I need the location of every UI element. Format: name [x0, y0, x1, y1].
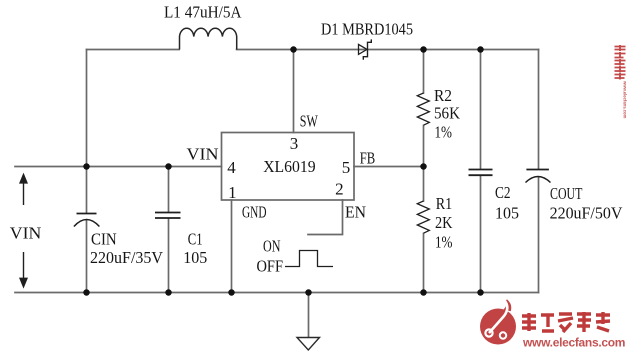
svg-text:COUT: COUT [550, 184, 583, 203]
inductor L1 coil [180, 28, 237, 49]
svg-text:VIN: VIN [187, 145, 219, 164]
svg-text:R2: R2 [434, 86, 452, 105]
wire GND pin 1 [231, 200, 233, 293]
svg-text:2: 2 [335, 180, 344, 199]
wire C1 lower [168, 219, 170, 293]
node bottom C1 [165, 289, 172, 296]
node bottom ground stem [305, 289, 312, 296]
wire top rail left segment [87, 49, 180, 51]
capacitor C1 plates [155, 213, 181, 219]
svg-text:105: 105 [183, 248, 207, 267]
svg-text:1: 1 [228, 183, 237, 202]
node bottom C2 [477, 289, 484, 296]
node input rail / riser [83, 163, 90, 170]
VIN arrow lower [19, 252, 28, 289]
watermark logo disc [480, 300, 516, 345]
node SW top [290, 46, 297, 53]
svg-text:56K: 56K [434, 104, 461, 123]
op IC U1 XL6019 box [222, 133, 355, 201]
svg-text:105: 105 [495, 203, 519, 222]
watermark brand characters [522, 312, 610, 332]
node bottom CIN [83, 289, 90, 296]
wire R2 bottom lead to FB node [423, 126, 425, 167]
node D1 cathode / R2 top [420, 46, 427, 53]
svg-text:VIN: VIN [10, 224, 42, 243]
wire ground stem [308, 293, 310, 338]
wire top rail right of inductor [237, 49, 539, 51]
svg-text:www.elecfans.com: www.elecfans.com [522, 336, 625, 350]
svg-text:FB: FB [360, 149, 376, 168]
svg-text:SW: SW [300, 111, 319, 130]
svg-text:EN: EN [345, 203, 366, 222]
svg-text:L1 47uH/5A: L1 47uH/5A [164, 3, 242, 22]
svg-text:220uF/35V: 220uF/35V [90, 248, 164, 267]
resistor R1 zigzag [417, 201, 429, 233]
svg-text:5: 5 [342, 158, 351, 177]
svg-text:C1: C1 [188, 230, 203, 249]
ground symbol [297, 338, 320, 351]
capacitor CIN plate [77, 213, 97, 215]
wire SW pin riser [293, 50, 295, 133]
wire C2 upper [480, 50, 482, 169]
resistor R2 zigzag [417, 93, 429, 125]
capacitor COUT plate [526, 169, 549, 171]
svg-text:www.elecfans.com: www.elecfans.com [623, 80, 628, 119]
wire R1 top lead [423, 167, 425, 202]
wire FB pin 5 [354, 166, 424, 168]
svg-text:GND: GND [242, 203, 267, 222]
node C2 top [477, 46, 484, 53]
EN on/off waveform [285, 251, 333, 267]
wire left riser upper (to CIN) [86, 50, 88, 214]
svg-text:3: 3 [290, 134, 299, 153]
node bottom R1 [420, 289, 427, 296]
wire right drop to COUT upper [538, 50, 540, 169]
capacitor COUT curved plate [526, 177, 551, 183]
svg-text:1%: 1% [435, 233, 453, 252]
wire C2 lower [480, 176, 482, 293]
svg-text:D1 MBRD1045: D1 MBRD1045 [321, 20, 413, 39]
svg-text:4: 4 [227, 158, 236, 177]
svg-text:XL6019: XL6019 [263, 157, 316, 176]
wire right drop COUT lower [538, 178, 540, 293]
svg-text:ON: ON [263, 237, 281, 256]
svg-text:R1: R1 [436, 194, 453, 213]
svg-text:1%: 1% [435, 123, 453, 142]
wire EN pin 2 [308, 200, 343, 235]
capacitor CIN curved plate [74, 220, 100, 227]
watermark side strip characters [615, 45, 626, 80]
svg-text:CIN: CIN [91, 230, 117, 249]
diode D1 schottky cathode bar [363, 39, 371, 59]
wire R2 top lead [423, 50, 425, 94]
wire bottom rail [15, 292, 539, 294]
capacitor C2 plates [469, 170, 493, 176]
svg-text:C2: C2 [495, 183, 511, 202]
svg-text:OFF: OFF [257, 257, 284, 276]
svg-text:2K: 2K [435, 213, 453, 232]
wire input rail [15, 166, 222, 168]
node FB [420, 163, 427, 170]
wire left riser lower (CIN to bottom) [86, 221, 88, 293]
wire C1 upper [168, 167, 170, 212]
svg-text:220uF/50V: 220uF/50V [550, 203, 623, 222]
VIN arrow upper [19, 173, 28, 205]
diode D1 triangle [359, 44, 368, 54]
wire R1 bottom lead [423, 234, 425, 293]
node input rail / C1 [165, 163, 172, 170]
node bottom GND pin [228, 289, 235, 296]
